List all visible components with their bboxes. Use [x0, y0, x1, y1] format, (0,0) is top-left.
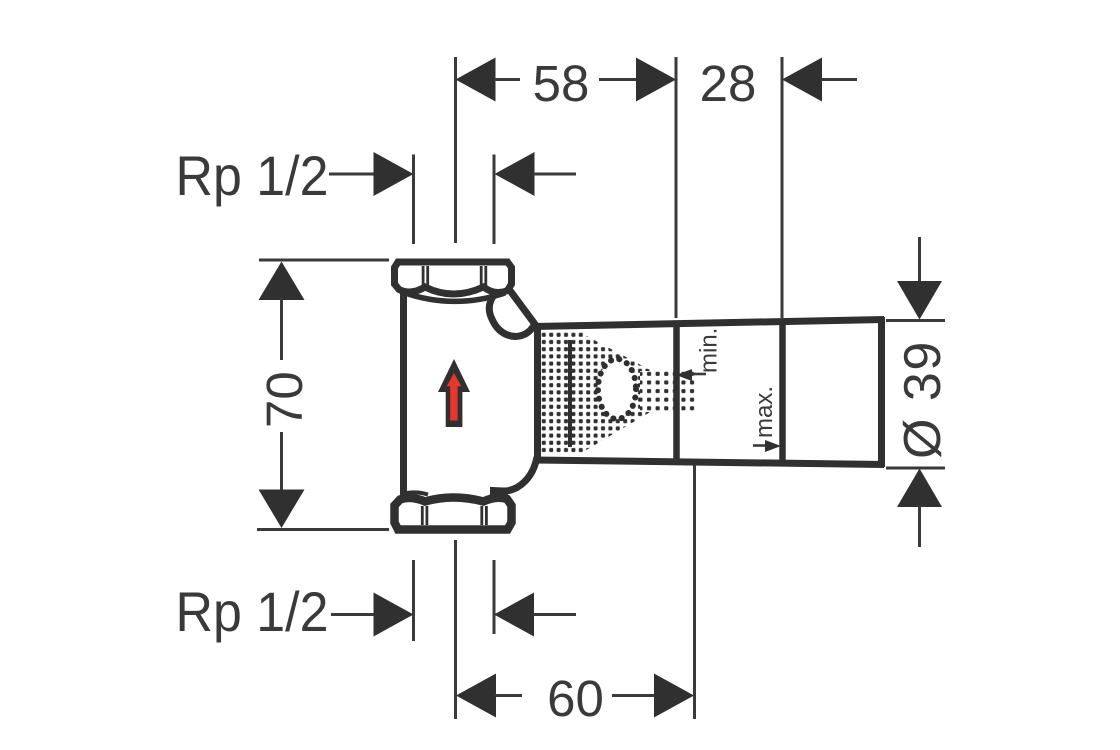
valve body ball notch arc — [489, 295, 533, 337]
Rp 1/2 bottom: extension line x=494 — [493, 560, 496, 634]
dim 28: right arrowhead — [782, 58, 822, 102]
svg-text:58: 58 — [533, 55, 590, 112]
top nut shoulder curve — [404, 293, 506, 302]
dim 58: right tail — [599, 78, 639, 81]
valve body bottom-right arc — [494, 457, 538, 498]
svg-text:28: 28 — [700, 55, 757, 112]
Rp 1/2 bottom: arrow tail — [533, 613, 576, 616]
frustum bottom edge — [534, 460, 884, 465]
dim 60: right tail — [612, 694, 656, 697]
frustum right cap line — [878, 317, 885, 467]
Rp 1/2 bottom: leader line — [331, 613, 376, 616]
bottom nut facet lines left pair — [421, 506, 424, 525]
Rp 1/2 bottom: extension line x=413.5 — [412, 560, 415, 641]
dim 58/28: shared extension line x=676 — [675, 57, 678, 318]
dim 70: bottom arrowhead — [259, 490, 305, 529]
svg-text:Rp 1/2: Rp 1/2 — [176, 580, 329, 643]
dim 58: left extension line x=455.5 — [454, 57, 457, 243]
svg-text:Ø 39: Ø 39 — [894, 340, 952, 459]
frustum left cap line — [534, 324, 541, 462]
valve cartridge housing (frustum) white fill — [537, 320, 883, 464]
flow arrow (red) — [447, 373, 462, 421]
dim 58: left arrowhead — [456, 58, 496, 102]
svg-text:60: 60 — [547, 670, 604, 727]
bottom nut shoulder curve — [404, 492, 429, 494]
Rp 1/2 top: arrowhead at x=494 — [495, 152, 535, 196]
dim D39: top arrowhead — [897, 281, 942, 320]
Rp 1/2 top: leader line — [329, 173, 376, 176]
dim 60: left extension line x=455.5 — [454, 540, 457, 719]
dim 70: upper line segment — [280, 298, 283, 360]
dim D39: top extension line — [886, 319, 945, 322]
frustum top edge — [534, 320, 884, 327]
min arrowhead — [676, 369, 692, 381]
dim 28: right tail — [821, 78, 857, 81]
dim D39: bottom extension line — [886, 467, 945, 470]
cartridge solid edge line — [568, 340, 572, 447]
valve body left line — [400, 290, 407, 498]
dim 60: left tail — [495, 694, 522, 697]
Rp 1/2 top: extension line x=494 — [493, 155, 496, 245]
svg-text:Rp 1/2: Rp 1/2 — [176, 144, 329, 207]
dim D39: upper leader line — [918, 237, 921, 283]
dim 60: right arrowhead — [654, 674, 694, 718]
dim 28: right extension line x=782 — [781, 57, 784, 318]
top nut facet lines left pair — [422, 266, 425, 288]
min arrow tail — [691, 373, 706, 376]
top hex nut — [395, 262, 512, 294]
stipple band left — [541, 332, 583, 455]
max arrowhead — [765, 440, 781, 452]
dim 58: left tail — [494, 78, 520, 81]
dim D39: bottom arrowhead — [897, 469, 942, 508]
dim 70: lower line segment — [280, 432, 283, 492]
Rp 1/2 top: arrowhead at x=413.5 — [374, 152, 414, 196]
dim 70: bottom extension line — [257, 528, 389, 531]
Rp 1/2 bottom: arrowhead at x=494 — [494, 593, 534, 637]
svg-text:70: 70 — [256, 371, 313, 428]
min boundary line — [673, 321, 680, 462]
bottom hex nut — [395, 498, 512, 530]
flow arrow outline (dark) — [438, 359, 470, 427]
Rp 1/2 top: arrow tail — [533, 173, 576, 176]
dim 70: top arrowhead — [259, 262, 305, 301]
dim D39: lower leader line — [918, 505, 921, 547]
Rp 1/2 bottom: arrowhead at x=413.5 — [374, 593, 414, 637]
dim 60: right extension line x=694.5 — [693, 420, 696, 719]
dim 60: left arrowhead — [456, 674, 496, 718]
svg-text:min.: min. — [696, 328, 723, 373]
stipple wedge — [583, 334, 652, 452]
valve body bottom-right step fill — [491, 488, 508, 498]
svg-text:max.: max. — [751, 386, 778, 438]
bottom nut facet lines right pair — [480, 506, 483, 525]
dim 58: right arrowhead — [636, 58, 676, 102]
dim 70: top extension line — [259, 259, 389, 262]
top nut facet lines right pair — [480, 266, 483, 288]
Rp 1/2 top: extension line x=413.5 — [412, 155, 415, 245]
dotted ring (valve seat) — [598, 359, 636, 419]
valve body top-right diagonal — [509, 289, 538, 328]
max boundary line — [779, 320, 786, 463]
max arrow tail — [753, 444, 768, 447]
stipple tail band — [640, 371, 697, 412]
